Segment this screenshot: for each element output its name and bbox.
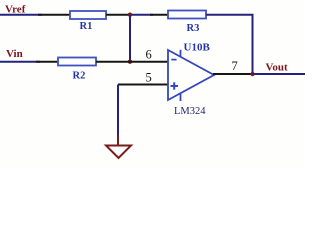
node A junction dot (128, 13, 132, 17)
resistor R3 (168, 11, 206, 19)
wire R1 to node A (106, 14, 131, 16)
op-amp U10B (168, 50, 214, 101)
wire pin 5 down to ground (117, 85, 119, 146)
wire node C to Vout (253, 73, 306, 75)
svg-text:LM324: LM324 (174, 106, 206, 117)
node B junction dot (128, 60, 132, 64)
svg-text:Vin: Vin (6, 48, 23, 60)
svg-text:R3: R3 (187, 23, 200, 34)
svg-text:6: 6 (146, 48, 152, 62)
resistor R1 (70, 11, 106, 19)
svg-text:U10B: U10B (184, 42, 211, 54)
wire R3 to top-right corner (206, 14, 254, 16)
svg-text:Vref: Vref (5, 4, 26, 16)
wire pin 5 horizontal (118, 84, 168, 86)
wire feedback vertical (252, 15, 254, 74)
resistor R2 (58, 58, 96, 66)
svg-text:R2: R2 (73, 71, 86, 82)
wire Vin to R2 (0, 61, 58, 63)
ground (106, 146, 131, 159)
wire output to node C (213, 73, 254, 75)
svg-text:5: 5 (146, 71, 152, 85)
wire R2 to op-amp inverting input (96, 61, 168, 63)
svg-text:Vout: Vout (266, 62, 289, 74)
wire node A down to node B (129, 15, 131, 62)
svg-text:7: 7 (232, 59, 238, 73)
wire Vref to R1 (0, 14, 70, 16)
wire node A to R3 (129, 14, 168, 16)
node C junction dot (250, 72, 254, 76)
svg-text:R1: R1 (80, 21, 93, 32)
